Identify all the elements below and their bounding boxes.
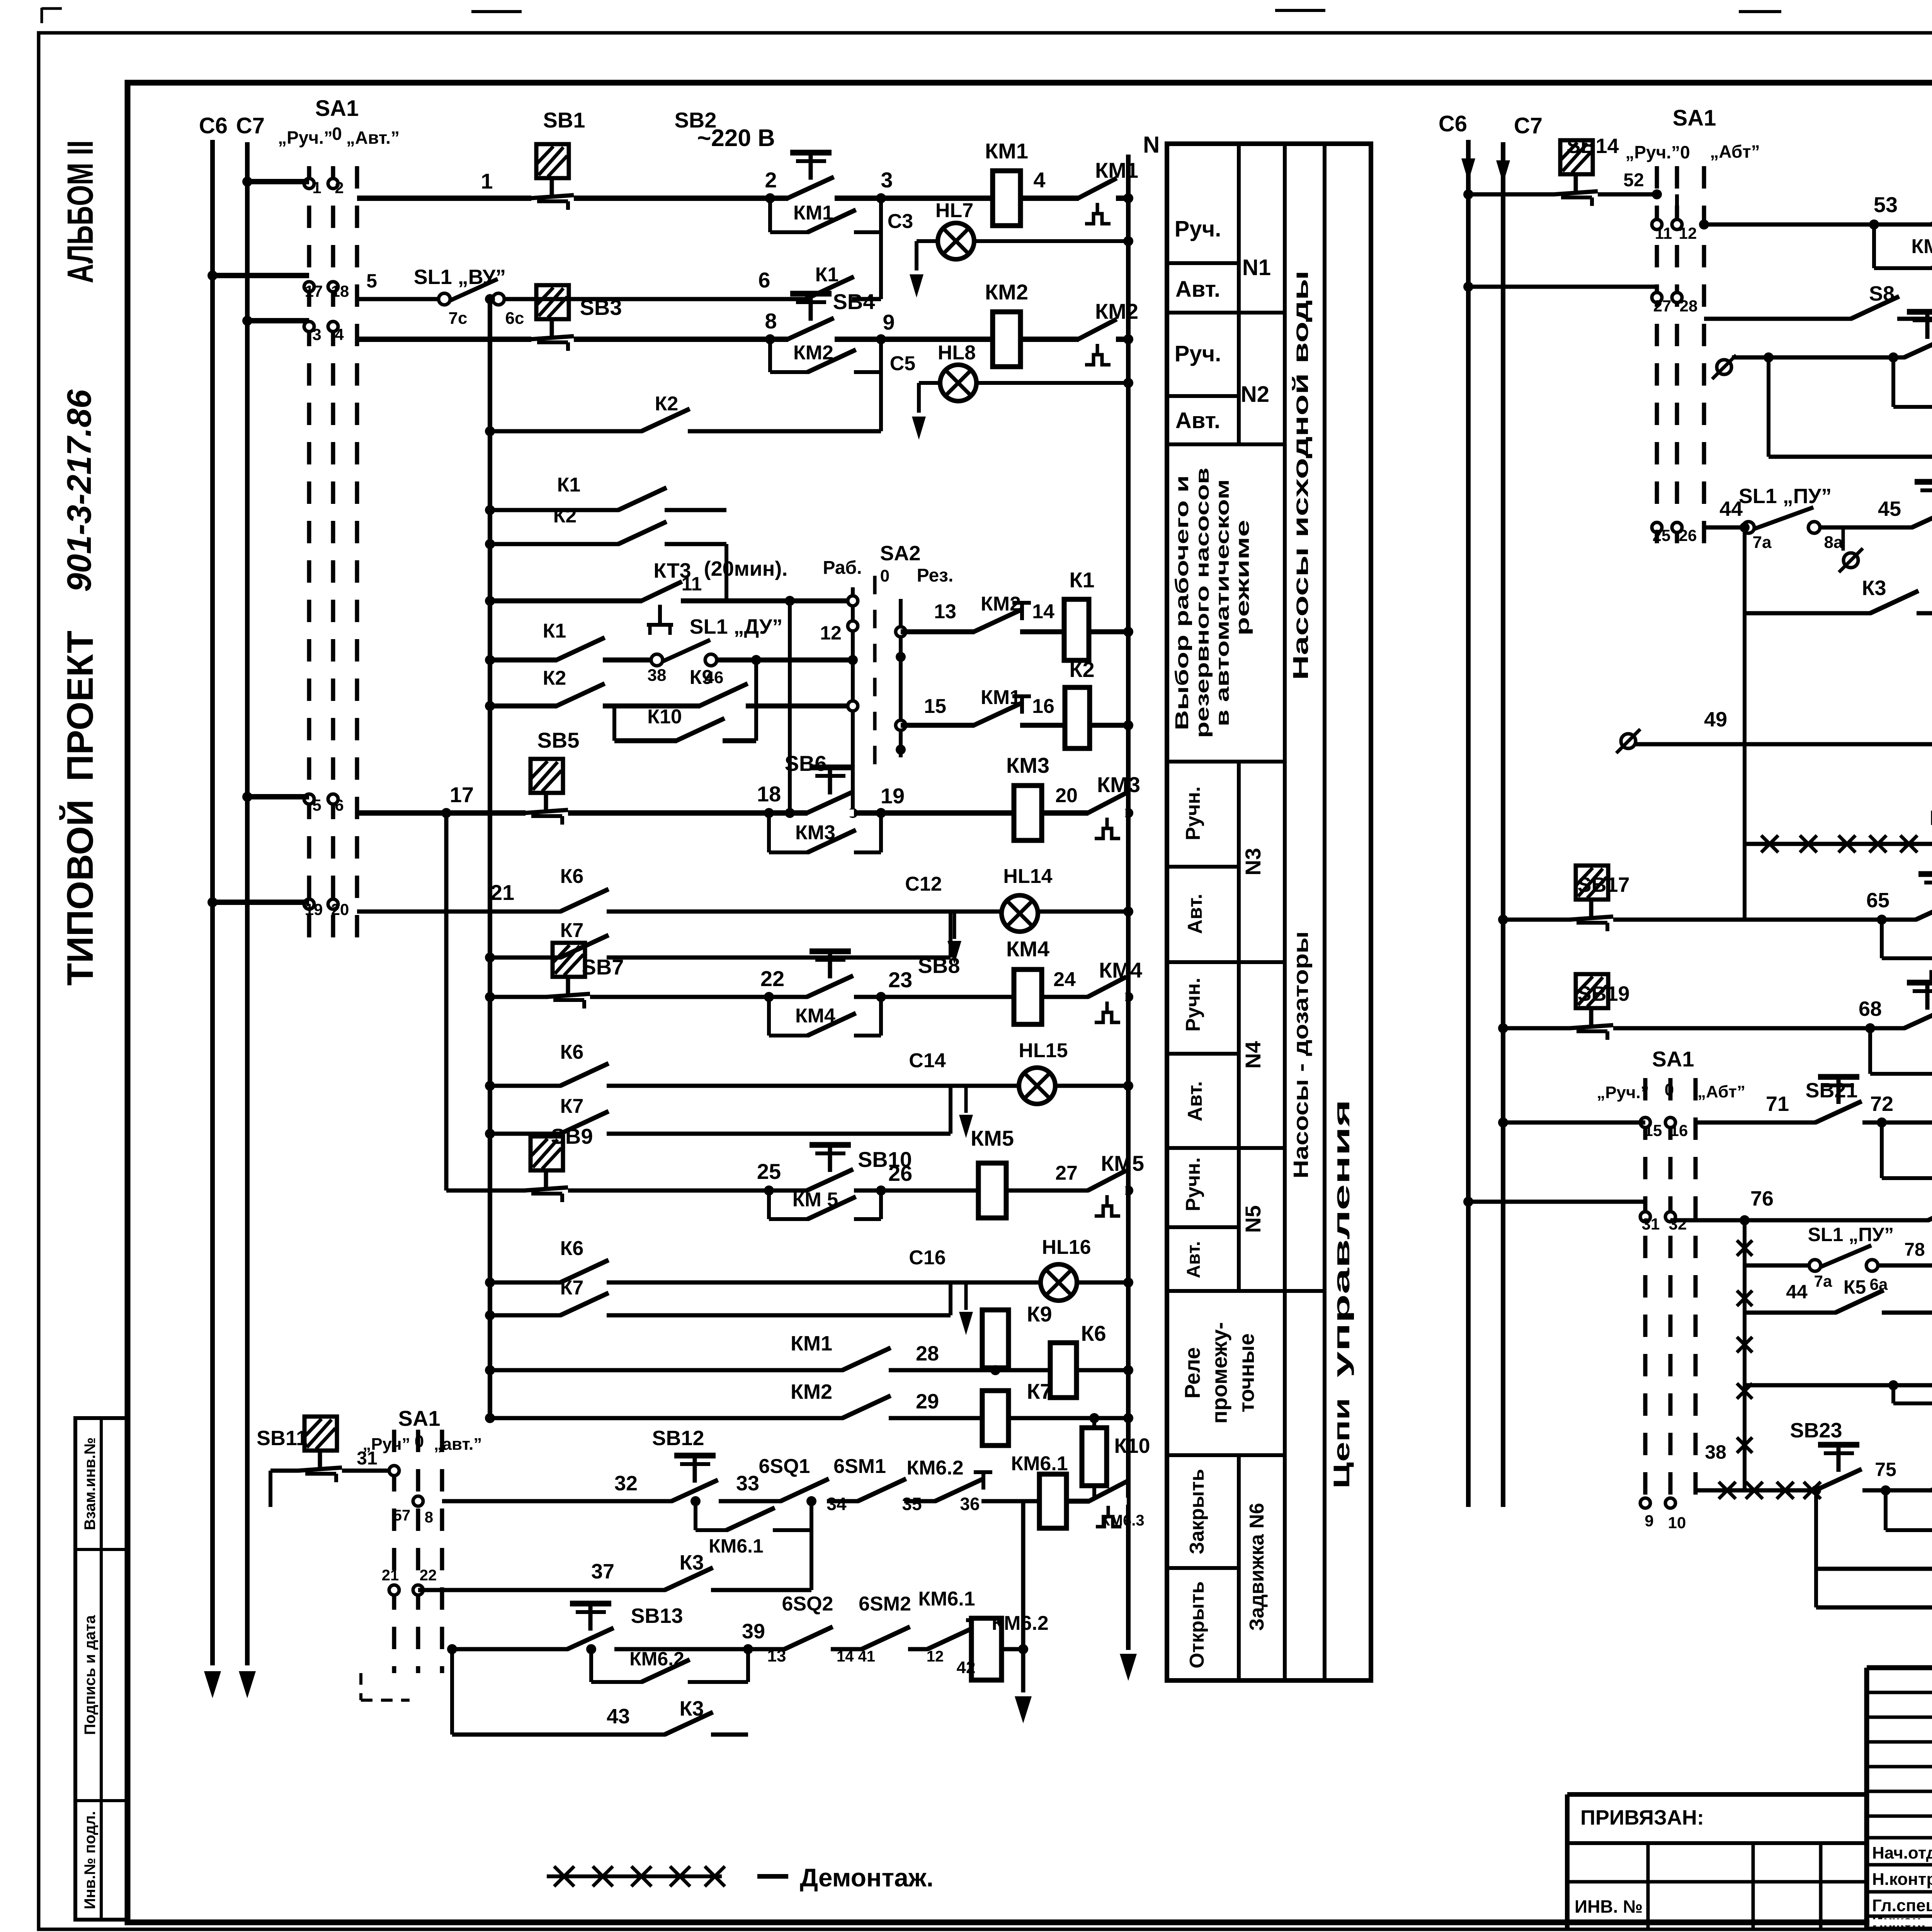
node 25 xyxy=(757,1159,781,1184)
svg-text:SB2: SB2 xyxy=(675,108,717,132)
lamp HL16 xyxy=(1041,1236,1091,1301)
cell zakryt xyxy=(1186,1469,1208,1554)
pushbutton SB11 xyxy=(257,1417,394,1482)
svg-text:16: 16 xyxy=(1032,695,1054,718)
svg-text:К7: К7 xyxy=(560,919,584,942)
node 17 xyxy=(450,782,474,807)
svg-text:42: 42 xyxy=(957,1658,976,1677)
node 24 xyxy=(1053,968,1076,991)
svg-text:C7: C7 xyxy=(236,113,265,138)
svg-text:N1: N1 xyxy=(1242,255,1271,280)
svg-text:КМ7.1: КМ7.1 xyxy=(1911,235,1932,258)
svg-text:КЧ: КЧ xyxy=(1930,806,1932,830)
corner dash mark xyxy=(361,1673,410,1700)
aux contact KM7.1 xyxy=(1911,235,1932,272)
bus C6 xyxy=(204,140,221,1698)
svg-text:SL1 „ПУ”: SL1 „ПУ” xyxy=(1739,485,1832,508)
SA1 contact 17-18 xyxy=(304,282,349,300)
svg-text:SB4: SB4 xyxy=(833,289,875,314)
aux contact KM2 xyxy=(793,342,856,376)
node 23 xyxy=(888,968,912,992)
limit contact 6SQ2 xyxy=(767,1593,833,1665)
aux contact K3 a xyxy=(665,1551,713,1594)
staff table label inv xyxy=(82,1811,99,1909)
SA1 contact 3-4 xyxy=(304,321,344,344)
svg-text:С5: С5 xyxy=(890,352,915,375)
middle table header row line xyxy=(1167,760,1285,764)
pushbutton SB14 xyxy=(1554,134,1644,206)
svg-text:К10: К10 xyxy=(1114,1434,1150,1458)
nc contact KM1 xyxy=(974,686,1031,729)
thermal contact KM3 xyxy=(1088,772,1140,838)
relay coil K7 xyxy=(981,1379,1052,1446)
wire KM1 selfhold xyxy=(765,193,886,232)
svg-text:26: 26 xyxy=(888,1161,912,1185)
svg-text:„Руч.”: „Руч.” xyxy=(1597,1083,1649,1102)
wire KM4 selfhold xyxy=(764,992,886,1036)
pushbutton SB21 xyxy=(1805,1077,1862,1126)
svg-text:Н.контр.: Н.контр. xyxy=(1872,1870,1932,1889)
svg-text:С14: С14 xyxy=(909,1049,946,1072)
svg-text:КМ1: КМ1 xyxy=(985,139,1028,163)
svg-text:7а: 7а xyxy=(1814,1272,1832,1290)
pushbutton SB10 xyxy=(807,1145,912,1194)
wire riser 1957 xyxy=(751,655,761,741)
aux contact K9 low xyxy=(1811,1485,1932,1607)
svg-text:8а: 8а xyxy=(1824,533,1843,552)
aux contact K6 a xyxy=(560,865,609,915)
svg-text:HL15: HL15 xyxy=(1019,1039,1068,1062)
svg-text:20: 20 xyxy=(1055,784,1078,807)
svg-text:„Абт”: „Абт” xyxy=(1710,141,1760,162)
KM11 selfhold xyxy=(1881,1485,1932,1530)
label 220V xyxy=(697,125,775,151)
node 27 xyxy=(1055,1162,1078,1184)
aux contact KM1 xyxy=(793,202,856,236)
wire rung 83 xyxy=(1745,1383,1932,1388)
bus C6 right xyxy=(1461,140,1475,1507)
node 9 xyxy=(883,310,895,334)
svg-text:SB19: SB19 xyxy=(1577,982,1629,1005)
svg-text:38: 38 xyxy=(1705,1441,1726,1463)
wire rung 78 xyxy=(1740,1215,1932,1265)
svg-text:N2: N2 xyxy=(1241,382,1269,407)
svg-text:Авт.: Авт. xyxy=(1175,277,1220,302)
node 68 xyxy=(1859,997,1882,1020)
pushbutton SB16 xyxy=(1904,312,1932,361)
svg-text:К7: К7 xyxy=(560,1095,584,1117)
svg-text:0: 0 xyxy=(880,566,889,585)
svg-text:16: 16 xyxy=(1670,1121,1688,1139)
cell ruch N1 xyxy=(1175,216,1221,241)
svg-text:13: 13 xyxy=(934,600,956,623)
stamp column text ALBOM II xyxy=(60,140,101,283)
svg-text:31: 31 xyxy=(1642,1215,1660,1233)
svg-text:78: 78 xyxy=(1904,1240,1925,1260)
wire rung 52 xyxy=(1463,189,1657,199)
node 26 xyxy=(888,1161,912,1185)
demontage marks K4x xyxy=(1761,835,1917,852)
svg-text:SA1: SA1 xyxy=(1652,1047,1694,1071)
svg-text:6SQ1: 6SQ1 xyxy=(759,1455,810,1478)
demontage marks 38 xyxy=(1705,1441,1821,1499)
bus C6 label xyxy=(199,113,228,138)
svg-text:12: 12 xyxy=(820,622,842,644)
svg-text:SA1: SA1 xyxy=(398,1406,440,1430)
wire C7 to SA1 3-4 xyxy=(242,316,309,326)
aux contact K3 r xyxy=(1862,577,1919,617)
privyazan label xyxy=(1580,1806,1704,1829)
K3 bypass xyxy=(1740,522,1932,613)
wire rung 44 xyxy=(1704,526,1932,530)
svg-text:0: 0 xyxy=(1665,1080,1674,1099)
stamp column text PROEKT xyxy=(60,631,101,781)
svg-text:КМ6.1: КМ6.1 xyxy=(1011,1452,1068,1475)
X riser xyxy=(1737,1215,1752,1490)
cell avt N3 xyxy=(1184,894,1206,934)
svg-text:17: 17 xyxy=(450,782,474,807)
svg-text:29: 29 xyxy=(916,1390,939,1413)
descending N wire xyxy=(1015,1501,1032,1723)
svg-text:20: 20 xyxy=(331,900,349,918)
svg-text:SB23: SB23 xyxy=(1790,1419,1842,1442)
wire rung 21 xyxy=(357,906,1133,917)
wire C6 to SA1 17-18 xyxy=(207,270,309,281)
wire rung 60 xyxy=(1732,355,1932,360)
svg-text:C7: C7 xyxy=(1514,113,1543,138)
svg-text:К2: К2 xyxy=(553,505,577,527)
svg-text:SB17: SB17 xyxy=(1577,873,1629,896)
aux contact K1 + SL1 DU xyxy=(485,615,853,687)
legend demontage line xyxy=(547,1866,725,1886)
relay coil K10 xyxy=(1081,1413,1150,1501)
node 16 xyxy=(1032,695,1054,718)
contactor coil KM6.1 xyxy=(1011,1452,1068,1528)
svg-text:КМ2: КМ2 xyxy=(981,593,1021,615)
KM10 selfhold xyxy=(1877,1117,1932,1178)
svg-text:КМ6.3: КМ6.3 xyxy=(1100,1512,1144,1529)
node 37 xyxy=(591,1560,614,1583)
svg-text:13: 13 xyxy=(767,1646,786,1665)
middle table relay cell lines xyxy=(1167,1291,1285,1568)
svg-text:КМ1: КМ1 xyxy=(791,1332,832,1355)
wire rung 1 xyxy=(357,193,1133,203)
svg-text:К2: К2 xyxy=(1069,657,1094,682)
aux contact KM5 xyxy=(793,1189,856,1223)
middle table frame xyxy=(1167,144,1371,1680)
svg-text:18: 18 xyxy=(331,282,349,300)
svg-text:0: 0 xyxy=(332,124,342,144)
wire rung 75 xyxy=(1696,1488,1932,1493)
svg-text:К6: К6 xyxy=(560,865,584,888)
svg-text:SB21: SB21 xyxy=(1805,1079,1857,1102)
wire rung K6b xyxy=(485,1081,1133,1091)
svg-text:С3: С3 xyxy=(888,210,913,233)
svg-text:SL1 „ДУ”: SL1 „ДУ” xyxy=(690,615,783,638)
svg-text:C6: C6 xyxy=(199,113,228,138)
aux contact KM1 low xyxy=(791,1332,891,1374)
staff gl spec xyxy=(1872,1896,1932,1915)
breaker phi c xyxy=(1712,355,1736,379)
svg-text:Авт.: Авт. xyxy=(1184,894,1206,934)
col tsepi upravleniya mid xyxy=(1329,1099,1354,1489)
aux contact K2 a xyxy=(485,372,881,436)
node 21 xyxy=(490,880,514,905)
svg-text:32: 32 xyxy=(1669,1215,1687,1233)
svg-text:3: 3 xyxy=(881,168,893,192)
svg-text:Взам.инв.№: Взам.инв.№ xyxy=(82,1437,99,1530)
svg-text:Рез.: Рез. xyxy=(917,565,954,586)
svg-text:52: 52 xyxy=(1623,170,1644,190)
svg-text:SB6: SB6 xyxy=(785,751,827,776)
svg-text:КМ6.1: КМ6.1 xyxy=(709,1535,764,1557)
SA1 low circles a xyxy=(389,1466,433,1526)
cell ruch N2 xyxy=(1175,341,1221,366)
svg-text:КМ4: КМ4 xyxy=(1006,937,1049,961)
aux contact K4 x xyxy=(1930,806,1932,847)
svg-text:2: 2 xyxy=(335,179,344,197)
svg-text:72: 72 xyxy=(1870,1092,1893,1116)
staff table label podpis xyxy=(82,1615,99,1735)
svg-text:Ручн.: Ручн. xyxy=(1182,978,1204,1032)
legend dash xyxy=(757,1874,788,1879)
svg-text:49: 49 xyxy=(1704,708,1727,731)
svg-text:Руч.: Руч. xyxy=(1175,341,1221,366)
selector SA2 pole rab xyxy=(848,587,858,818)
pushbutton SB2 xyxy=(675,108,835,202)
cell ruchn N3 xyxy=(1182,786,1204,840)
svg-text:режиме: режиме xyxy=(1233,520,1253,636)
relay coil K9 xyxy=(981,1302,1052,1375)
node 72 xyxy=(1870,1092,1893,1116)
pushbutton SB23 xyxy=(1790,1419,1862,1494)
wire rung K4x xyxy=(1745,613,1932,920)
svg-text:Авт.: Авт. xyxy=(1184,1081,1206,1121)
SA1r contact 25-26 xyxy=(1652,522,1697,544)
middle table col lines xyxy=(1239,144,1325,1680)
cell N3 xyxy=(1241,848,1265,876)
KM9 selfhold xyxy=(1865,1023,1932,1074)
pushbutton SB4 xyxy=(787,289,875,343)
svg-text:ТИПОВОЙ: ТИПОВОЙ xyxy=(59,799,101,986)
wire C7r to 15-16 xyxy=(1498,1117,1645,1128)
svg-text:23: 23 xyxy=(888,968,912,992)
svg-text:9: 9 xyxy=(883,310,895,334)
svg-text:промежу-: промежу- xyxy=(1207,1322,1231,1424)
svg-text:резервного насосов: резервного насосов xyxy=(1192,468,1213,738)
aux contact K7 a xyxy=(485,912,951,963)
svg-text:в автоматическом: в автоматическом xyxy=(1213,479,1233,726)
nc contact KM6.1 r xyxy=(918,1588,985,1665)
svg-text:КМ3: КМ3 xyxy=(795,821,835,844)
wire to descend xyxy=(1002,1647,1023,1651)
cell ruchn N5 xyxy=(1182,1157,1204,1211)
contactor coil KM3 xyxy=(1006,753,1049,840)
selector SA1 dashed poles xyxy=(309,166,357,947)
SA1 low circles b xyxy=(382,1567,437,1595)
svg-text:КМ2: КМ2 xyxy=(985,280,1028,304)
aux contact K2 + K9 xyxy=(485,666,853,711)
pushbutton SB24 xyxy=(1931,1434,1932,1494)
SA1 contact 19-20 xyxy=(304,899,349,918)
wire rung S8 xyxy=(1704,319,1932,356)
thermal contact KM1 xyxy=(1078,158,1138,224)
svg-text:HL14: HL14 xyxy=(1003,865,1052,888)
wire rung 32 xyxy=(442,1499,1039,1503)
lamp HL14 xyxy=(1002,865,1053,932)
bottom sheet edge line xyxy=(541,185,1932,1932)
pressure contact SP1 xyxy=(1912,466,1932,531)
svg-text:SB12: SB12 xyxy=(652,1427,704,1450)
node 53 xyxy=(1874,192,1898,217)
wire left riser 1268 xyxy=(485,294,495,1418)
svg-text:ИНВ. №: ИНВ. № xyxy=(1575,1896,1643,1917)
svg-text:SB7: SB7 xyxy=(582,955,624,979)
bus N left xyxy=(1120,155,1137,1681)
nc contact KM2 xyxy=(974,593,1031,635)
bus C6 right label xyxy=(1439,111,1467,136)
KM71 selfhold xyxy=(1869,219,1932,268)
aux contact KM6.2 xyxy=(629,1648,690,1685)
svg-text:27: 27 xyxy=(1653,297,1672,315)
pushbutton SB18 xyxy=(1916,866,1932,923)
svg-text:SB14: SB14 xyxy=(1566,134,1619,158)
aux contact K7 b xyxy=(485,1086,951,1139)
aux contact KM6.1 xyxy=(709,1508,775,1557)
staff nach otd xyxy=(1872,1842,1932,1862)
nc contact KM6.2 r xyxy=(906,1457,992,1514)
pushbutton SB5 xyxy=(524,728,579,825)
pushbutton SB8 xyxy=(807,951,960,1000)
inv no label xyxy=(1575,1896,1643,1917)
wire rung 49 xyxy=(1616,729,1932,753)
node 65 xyxy=(1866,889,1889,912)
svg-text:0: 0 xyxy=(415,1432,424,1451)
node 78 xyxy=(1904,1240,1925,1260)
svg-text:„Авт.”: „Авт.” xyxy=(346,128,400,148)
node 22 xyxy=(760,966,784,991)
svg-text:10: 10 xyxy=(1668,1514,1686,1532)
svg-text:К1: К1 xyxy=(557,474,581,496)
svg-text:КМ6.2: КМ6.2 xyxy=(992,1612,1048,1634)
svg-text:Раб.: Раб. xyxy=(823,558,862,578)
wire rung 15-16 xyxy=(901,720,1133,730)
node 44 xyxy=(1719,497,1743,520)
svg-text:КМ3: КМ3 xyxy=(1097,772,1140,797)
selector SA1 rlow dashed xyxy=(1645,1078,1696,1507)
selector SA1 low dashed xyxy=(394,1430,442,1673)
svg-text:К6: К6 xyxy=(560,1041,584,1063)
svg-text:Гл.спец: Гл.спец xyxy=(1872,1896,1932,1915)
svg-text:38: 38 xyxy=(648,666,667,685)
node 43 xyxy=(607,1705,630,1728)
svg-text:КМ3: КМ3 xyxy=(1006,753,1049,777)
svg-text:„Руч.”0: „Руч.”0 xyxy=(1625,142,1690,162)
svg-text:12: 12 xyxy=(927,1648,944,1665)
wire C stub SB11 xyxy=(269,1471,272,1507)
svg-text:КМ2: КМ2 xyxy=(793,342,833,364)
svg-text:Нач.отд.: Нач.отд. xyxy=(1872,1844,1932,1862)
SA1rl contact 31-32 xyxy=(1640,1212,1687,1233)
svg-text:К7: К7 xyxy=(1027,1379,1052,1403)
svg-text:6: 6 xyxy=(335,796,344,814)
aux contact K1 b xyxy=(485,474,726,515)
svg-text:N3: N3 xyxy=(1241,848,1265,876)
wire label C5 xyxy=(890,352,915,375)
svg-text:Инв.№ подл.: Инв.№ подл. xyxy=(82,1811,99,1909)
node 71 xyxy=(1766,1092,1789,1116)
staff table label vzam xyxy=(82,1437,99,1530)
thermal contact KM6.3 xyxy=(1066,1481,1145,1529)
node 19 xyxy=(881,784,905,808)
svg-text:К6: К6 xyxy=(1081,1321,1106,1345)
title block outline xyxy=(1867,1668,1932,1929)
pushbutton SB19 xyxy=(1570,974,1630,1040)
wire label C14 arrow xyxy=(909,1049,973,1138)
wire C6 to SA1 19-20 xyxy=(207,897,309,907)
wire KM2 selfhold xyxy=(765,334,886,372)
svg-text:11: 11 xyxy=(682,573,702,595)
svg-text:КМ1: КМ1 xyxy=(1095,158,1138,182)
svg-text:С12: С12 xyxy=(905,873,942,895)
relay coil K6 xyxy=(1049,1321,1106,1398)
privyazan outline xyxy=(1567,1794,1867,1929)
svg-text:25: 25 xyxy=(1653,526,1671,544)
node 5 xyxy=(366,270,377,292)
svg-text:КМ4: КМ4 xyxy=(795,1005,835,1027)
svg-text:Ручн.: Ручн. xyxy=(1182,1157,1204,1211)
svg-text:901-3-217.86: 901-3-217.86 xyxy=(60,389,98,592)
lamp HL8 xyxy=(938,342,976,401)
svg-text:К3: К3 xyxy=(680,1551,704,1574)
selector SA1 rlow labels xyxy=(1597,1047,1745,1102)
staff inzhen xyxy=(1872,1913,1932,1930)
node 14 xyxy=(1032,600,1054,623)
wire C6r to 31-32 xyxy=(1463,1197,1645,1217)
wire rung 3 xyxy=(357,334,1133,344)
node 49 xyxy=(1704,708,1727,731)
svg-text:SA1: SA1 xyxy=(315,96,359,121)
cell N2 xyxy=(1241,382,1269,407)
cell rele xyxy=(1180,1322,1259,1424)
svg-text:К3: К3 xyxy=(680,1697,704,1720)
svg-text:HL16: HL16 xyxy=(1042,1236,1091,1259)
svg-text:11: 11 xyxy=(1655,224,1672,242)
SA1rl contact 9-10 xyxy=(1640,1498,1686,1532)
svg-text:SB5: SB5 xyxy=(537,728,580,752)
pushbutton SB6 xyxy=(785,751,854,816)
wire riser 1155 xyxy=(441,808,451,1190)
svg-text:36: 36 xyxy=(960,1494,980,1514)
svg-text:71: 71 xyxy=(1766,1092,1789,1116)
svg-text:SB13: SB13 xyxy=(631,1604,683,1628)
contactor coil KM2 xyxy=(985,280,1028,367)
node 13 xyxy=(934,600,956,623)
bus C7 right xyxy=(1496,142,1510,1507)
svg-text:76: 76 xyxy=(1750,1187,1774,1210)
col nasosy dozatory xyxy=(1289,931,1313,1179)
svg-text:31: 31 xyxy=(357,1448,377,1469)
wire riser 2044 xyxy=(785,596,795,818)
SA1r contact 11-12 xyxy=(1652,189,1709,242)
aux contact K5 a xyxy=(1928,1181,1932,1224)
wire KM3 selfhold xyxy=(764,808,886,852)
wire rung 65 xyxy=(1498,915,1932,925)
wire label C16 arrow xyxy=(909,1247,973,1335)
wire rung 17 xyxy=(357,808,1133,818)
wire rung 53 xyxy=(1704,223,1932,227)
node 8 xyxy=(765,309,777,333)
